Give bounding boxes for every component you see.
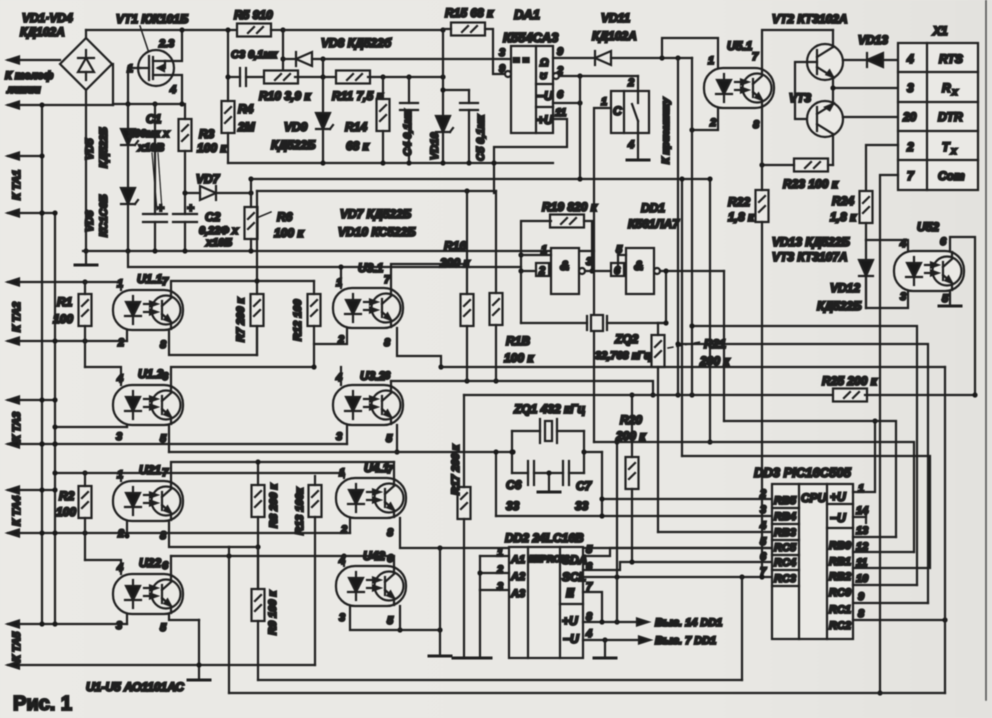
-U pin4 wire [583, 639, 640, 641]
junction (128,104) [125, 101, 130, 106]
junction (443,90) [440, 87, 445, 92]
junction (692,395) [689, 392, 694, 397]
DD3 pin8 wire [853, 619, 945, 621]
wire [42, 623, 127, 625]
svg-text:х: х [950, 146, 957, 157]
junction (692,326) [689, 323, 694, 328]
svg-text:R4: R4 [238, 102, 254, 116]
svg-text:С2: С2 [205, 210, 221, 224]
wire [127, 532, 350, 534]
R25 line y395 [464, 394, 835, 396]
svg-text:К554СА3: К554СА3 [503, 30, 559, 45]
wire [772, 585, 799, 587]
resistor R24 [860, 191, 873, 223]
DA1 output pin2 wire [553, 73, 559, 79]
svg-text:К приемнику: К приемнику [660, 97, 672, 164]
svg-text:ʊ: ʊ [540, 70, 547, 82]
wire [314, 517, 316, 665]
wire [761, 108, 763, 190]
junction (653,395) [650, 392, 655, 397]
wire [8, 443, 347, 445]
wire [314, 328, 347, 344]
wire [85, 560, 121, 574]
gate DD1.2 [626, 248, 654, 294]
wire [495, 191, 497, 293]
wire to phone line top [8, 59, 60, 61]
junction (283,59) [280, 56, 285, 61]
junction (185,251) [182, 248, 187, 253]
junction (55,341) [52, 338, 57, 343]
svg-text:R20: R20 [620, 413, 642, 427]
junction (580,179) [577, 176, 582, 181]
wire [408, 110, 410, 163]
optocoupler U2.2 [113, 574, 183, 614]
junction (440,630) [437, 627, 442, 632]
svg-text:4: 4 [759, 520, 766, 532]
bus vertical x46 [54, 213, 56, 624]
wire [559, 547, 561, 658]
wire [843, 59, 867, 61]
wire [259, 212, 271, 217]
wire [84, 326, 86, 341]
junction (409,77) [406, 74, 411, 79]
wire [184, 104, 186, 119]
wire [368, 76, 443, 78]
wire [468, 90, 470, 103]
wire [616, 577, 618, 622]
resistor R10 [264, 71, 298, 84]
wire [257, 621, 259, 680]
VT3 emitter down [832, 134, 834, 165]
vertical m2 [691, 58, 693, 395]
svg-text:RTS: RTS [939, 52, 963, 66]
junction (512,452) [509, 449, 514, 454]
svg-text:1: 1 [708, 55, 714, 67]
svg-text:R14: R14 [345, 120, 367, 134]
svg-text:33: 33 [506, 499, 520, 513]
svg-text:R16: R16 [444, 239, 466, 253]
switch pin4 wire to ground [637, 133, 639, 160]
wire [382, 77, 384, 99]
capacitor C7 [563, 461, 569, 485]
svg-text:С4 0,1мк: С4 0,1мк [402, 108, 414, 156]
VT2 collector [832, 30, 834, 47]
svg-text:100 к: 100 к [504, 351, 534, 365]
resistor R3 [179, 119, 192, 151]
wire [898, 159, 978, 161]
line y421 to pin13 [724, 421, 896, 537]
svg-text:U1.1: U1.1 [137, 272, 163, 286]
junction (397,452) [394, 449, 399, 454]
svg-text:2: 2 [340, 524, 347, 536]
transistor VT1 [138, 50, 174, 86]
junction (229,556) [226, 553, 231, 558]
capacitor C2 (supercap) [173, 201, 197, 222]
switch pin1 wire [594, 108, 611, 442]
IC DD2 24LC16B [509, 547, 587, 658]
wire [798, 484, 800, 639]
wire [898, 71, 978, 73]
wire [184, 151, 186, 193]
resistor R14 [377, 99, 390, 131]
svg-text:DD1: DD1 [641, 201, 665, 215]
wire [350, 606, 440, 630]
wire [480, 589, 509, 591]
svg-text:1,8 к: 1,8 к [830, 210, 857, 224]
optocoupler U2.1 [113, 481, 183, 521]
wire [463, 395, 465, 487]
svg-text:2: 2 [538, 265, 545, 277]
wire [495, 325, 497, 381]
junction (666,271) [663, 268, 668, 273]
junction (662,58) [659, 55, 664, 60]
wire [521, 254, 551, 256]
zener VD10 [436, 116, 453, 132]
resistor R9 [252, 589, 265, 621]
svg-text:VD6: VD6 [84, 210, 96, 232]
wire [322, 77, 324, 113]
wire [637, 91, 639, 103]
wire [256, 326, 258, 355]
svg-text:1: 1 [601, 96, 607, 108]
svg-text:R3: R3 [199, 127, 215, 141]
junction (666,323) [657, 323, 659, 335]
wire [772, 569, 799, 571]
wire [84, 341, 86, 367]
pin3 line y516 [496, 515, 772, 517]
wire [84, 282, 86, 294]
svg-text:7: 7 [162, 276, 169, 288]
svg-text:R24: R24 [832, 194, 854, 208]
resistor R20 [626, 457, 639, 489]
wire [772, 554, 799, 556]
pin7 wire [583, 576, 772, 578]
junction (409,163) [406, 160, 411, 165]
junction (251,251) [248, 248, 253, 253]
wire [256, 326, 258, 355]
wire [349, 518, 351, 533]
svg-text:DA1: DA1 [514, 7, 540, 22]
wire [816, 50, 818, 74]
svg-text:DD2 24LC16В: DD2 24LC16В [505, 531, 584, 545]
junction (42,624) [39, 621, 44, 626]
svg-text:Выв. 7 DD1: Выв. 7 DD1 [655, 635, 716, 647]
svg-text:VD11: VD11 [601, 11, 630, 25]
wire [228, 547, 230, 693]
svg-text:VT3: VT3 [789, 91, 811, 105]
U4.1 pin wires [343, 473, 345, 478]
junction (42,213) [39, 210, 44, 215]
svg-text:КД102А: КД102А [20, 25, 65, 39]
wire [535, 46, 537, 133]
optocoupler U4.1 [336, 478, 406, 518]
capacitor C5 [460, 103, 478, 110]
optocoupler U5.2 [894, 251, 964, 291]
wire [8, 340, 127, 342]
svg-text:2: 2 [759, 488, 766, 500]
wire [382, 131, 384, 163]
ZQ1 loop [512, 430, 540, 432]
wire VT1 drain [165, 30, 182, 61]
junction (55,400) [52, 397, 57, 402]
svg-text:VD10 КС522Б: VD10 КС522Б [338, 225, 416, 239]
junction (251,179) [248, 176, 253, 181]
svg-text:R5 910: R5 910 [234, 8, 273, 22]
svg-text:С3 0,1мк: С3 0,1мк [231, 49, 279, 61]
wire [632, 104, 638, 121]
junction (875,421) [872, 418, 877, 423]
DD3 left pin wires [658, 531, 772, 533]
U4.2 pin wires [343, 556, 345, 566]
wire [865, 511, 867, 523]
U1.1 pin8 wire [169, 330, 257, 355]
svg-text:линии: линии [6, 84, 41, 96]
svg-text:Com: Com [938, 169, 965, 183]
wire [495, 452, 497, 516]
svg-text:КД522Б: КД522Б [271, 138, 316, 152]
wire [84, 533, 86, 560]
junction (383,77) [380, 74, 385, 79]
wire [283, 58, 296, 60]
svg-text:4: 4 [906, 52, 914, 66]
svg-text:68 к: 68 к [346, 139, 370, 153]
svg-text:RB5: RB5 [774, 495, 797, 507]
wire [827, 527, 853, 529]
ground DD2 right [604, 640, 606, 658]
К ТА3 wires [8, 399, 55, 401]
svg-text:5: 5 [942, 293, 949, 305]
wire [665, 271, 667, 323]
DTR wire from VT3 [843, 116, 898, 118]
junction (257,281) [256, 191, 258, 294]
U1.2 pin4 wire [85, 367, 121, 385]
junction (602,622) [599, 619, 604, 624]
resistor R23 [794, 159, 828, 172]
junction (678,344) [675, 341, 680, 346]
R19 loop wires [521, 221, 551, 271]
U5.1 pin1 wire [662, 38, 718, 68]
wire [827, 503, 853, 505]
svg-text:Выв. 14 DD1: Выв. 14 DD1 [655, 617, 722, 629]
svg-text:К ТА4: К ТА4 [11, 496, 23, 526]
К ТА2 wires [8, 281, 121, 283]
DD3 pin1 wire [853, 421, 875, 492]
rail y191 pullup supply [257, 190, 496, 192]
rail y163 [228, 162, 553, 164]
svg-text:6: 6 [557, 89, 564, 101]
junction (341,267) [338, 264, 343, 269]
IC DD3 PIC16C505 [772, 484, 853, 639]
svg-text:8: 8 [384, 337, 391, 349]
svg-text:5: 5 [760, 536, 767, 548]
svg-text:11: 11 [555, 107, 566, 119]
DD3 pin10 wire [853, 584, 917, 586]
wire [560, 603, 583, 605]
junction (467,381) [464, 378, 469, 383]
junction (467,191) [464, 188, 469, 193]
junction (496,381) [493, 378, 498, 383]
svg-text:E: E [566, 586, 575, 600]
wire [153, 60, 165, 62]
svg-text:0,22Ф х: 0,22Ф х [199, 225, 239, 237]
svg-text:R6: R6 [277, 210, 293, 224]
svg-text:RB0: RB0 [829, 540, 852, 552]
DA1 -U pin6 wire [553, 102, 580, 104]
node wire y195 [185, 192, 200, 194]
wire [396, 425, 398, 452]
zener VD9 [316, 113, 333, 129]
svg-text:VD9: VD9 [284, 120, 308, 134]
ground [627, 159, 649, 161]
junction (467,264) [464, 261, 469, 266]
node rail y104 [113, 103, 182, 105]
svg-text:R1В: R1В [506, 334, 530, 348]
svg-text:3: 3 [497, 581, 503, 593]
svg-text:VD13 КД522Б: VD13 КД522Б [772, 235, 850, 249]
long emitter line y452 [169, 451, 513, 453]
svg-text:−U: −U [537, 89, 553, 103]
junction (443,30) [440, 27, 445, 32]
wire [216, 192, 251, 194]
transistor VT2 [807, 44, 843, 80]
svg-text:10: 10 [856, 573, 869, 585]
wire [127, 204, 129, 251]
diode VD7 [200, 186, 216, 200]
bus vertical x34 [41, 105, 43, 624]
wire [127, 104, 129, 130]
wire [579, 76, 581, 179]
junction (258,462) [255, 459, 260, 464]
wire [8, 212, 55, 214]
DA1 output pin9 wire [553, 57, 595, 59]
junction (632,395) [629, 392, 634, 397]
wire bridge top to rail [85, 30, 87, 38]
capacitor C6 [528, 461, 534, 485]
svg-text:6: 6 [162, 371, 169, 383]
svg-text:2: 2 [117, 337, 124, 349]
wire [657, 367, 659, 532]
wire [521, 270, 536, 272]
line y442 to pin12 [594, 442, 914, 552]
wire [295, 76, 338, 78]
switch C (reed relay contact) [611, 91, 649, 133]
arrow [639, 637, 650, 644]
svg-text:RB1: RB1 [829, 556, 851, 568]
junction (833,88) [830, 85, 835, 90]
wire [140, 67, 149, 69]
junction (602,516) [599, 513, 604, 518]
svg-text:VD13: VD13 [858, 33, 888, 47]
resistor R19 [550, 215, 584, 228]
svg-text:+U: +U [537, 113, 553, 127]
junction (441,367) [397, 328, 441, 367]
wire [611, 57, 692, 59]
wire [120, 473, 122, 481]
svg-text:+: + [157, 201, 164, 215]
wire [399, 606, 401, 630]
junction (443,77) [440, 74, 445, 79]
svg-text:2М: 2М [237, 120, 256, 134]
junction (128,251) [125, 248, 130, 253]
svg-text:КС1С6Б: КС1С6Б [98, 194, 110, 237]
svg-text:2: 2 [627, 77, 634, 89]
junction (55,533) [52, 530, 57, 535]
junction (580,76) [577, 73, 582, 78]
wire [169, 521, 229, 547]
resistor R4 [222, 101, 235, 133]
junction (617,577) [614, 574, 619, 579]
wire [127, 145, 129, 200]
optocoupler U5.1 [704, 68, 774, 108]
ground U bank [198, 620, 200, 680]
wire [257, 517, 259, 590]
comparator DA1 K554CA3 [511, 46, 553, 133]
wire bridge right corner down [112, 64, 113, 105]
vertical m5 from DD1.2 output [723, 271, 725, 421]
svg-text:КД102А: КД102А [592, 29, 637, 43]
junction (55,490) [52, 487, 57, 492]
wire [926, 43, 928, 190]
zener VD6 [121, 188, 138, 204]
wire [171, 462, 258, 481]
ground [429, 655, 451, 657]
resistor R5 [237, 24, 271, 37]
wire VD10 col from rail [442, 30, 444, 77]
svg-text:VD12: VD12 [830, 281, 860, 295]
wire [617, 255, 619, 271]
wire [569, 472, 584, 474]
dot on R22 column at y577 [759, 574, 764, 579]
svg-text:X1: X1 [932, 24, 948, 38]
U2.2 pin5 wire [169, 614, 199, 620]
switch pin2 wire [637, 76, 639, 91]
svg-text:U1.2: U1.2 [138, 367, 164, 381]
svg-text:2: 2 [709, 117, 716, 129]
wire [246, 76, 267, 78]
wire [618, 254, 626, 256]
svg-text:VT1 КЖ101Б: VT1 КЖ101Б [116, 12, 189, 26]
resistor R16 [461, 294, 474, 326]
svg-text:2: 2 [117, 528, 124, 540]
junction (228,30) [225, 27, 230, 32]
svg-text:R13 100к: R13 100к [294, 486, 306, 535]
junction (344,556) [341, 553, 346, 558]
svg-text:U22: U22 [139, 556, 161, 570]
svg-text:VD10: VD10 [429, 132, 441, 160]
wire [772, 523, 799, 525]
wire [184, 222, 186, 251]
wire [480, 572, 509, 574]
svg-text:RB4: RB4 [774, 511, 796, 523]
К ТА5 wires [8, 623, 42, 625]
svg-text:С1: С1 [146, 112, 162, 126]
wire [479, 556, 481, 590]
svg-text:U42: U42 [363, 549, 385, 563]
U5.2 pin6 wire [950, 237, 975, 393]
wire [55, 472, 344, 474]
svg-text:х10В: х10В [137, 142, 164, 154]
wire [817, 104, 833, 114]
svg-text:4: 4 [585, 628, 592, 640]
wire [257, 462, 259, 485]
crystal ZQ2 [587, 315, 607, 331]
junction (521,255) [518, 252, 523, 257]
svg-text:20: 20 [902, 110, 917, 124]
U1.1 pin7 wire [171, 281, 314, 290]
wire [393, 462, 395, 478]
ground [594, 657, 616, 659]
ground R17 [453, 657, 475, 659]
